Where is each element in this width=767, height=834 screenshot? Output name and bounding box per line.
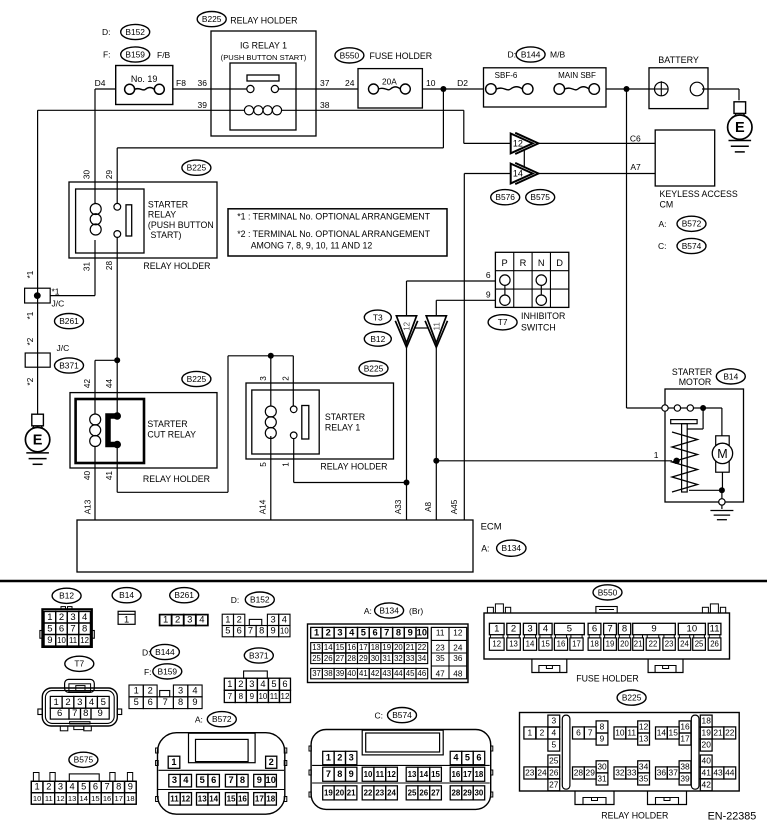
svg-text:EN-22385: EN-22385 <box>708 811 757 823</box>
svg-text:23: 23 <box>525 767 535 777</box>
svg-text:B159: B159 <box>158 666 178 676</box>
svg-text:B225: B225 <box>364 363 384 373</box>
svg-text:C:: C: <box>375 711 384 721</box>
svg-text:11: 11 <box>69 636 77 645</box>
svg-text:38: 38 <box>680 761 690 771</box>
svg-text:RELAY 1: RELAY 1 <box>325 422 360 432</box>
svg-text:37: 37 <box>312 669 321 678</box>
svg-text:3: 3 <box>259 376 268 381</box>
svg-text:40: 40 <box>83 471 92 481</box>
svg-text:RELAY HOLDER: RELAY HOLDER <box>230 15 297 25</box>
svg-text:*2: *2 <box>26 337 35 345</box>
svg-text:A14: A14 <box>259 499 268 514</box>
svg-text:8: 8 <box>239 692 244 701</box>
svg-text:11: 11 <box>710 624 720 635</box>
svg-text:26: 26 <box>419 788 428 797</box>
svg-text:17: 17 <box>572 640 581 649</box>
svg-text:15: 15 <box>227 794 236 803</box>
svg-text:39: 39 <box>680 773 690 783</box>
svg-text:B225: B225 <box>622 693 642 703</box>
svg-text:AMONG 7, 8, 9, 10, 11 AND 12: AMONG 7, 8, 9, 10, 11 AND 12 <box>251 241 373 251</box>
svg-text:B576: B576 <box>495 192 515 202</box>
svg-text:27: 27 <box>336 654 345 663</box>
svg-text:7: 7 <box>607 624 612 635</box>
svg-text:16: 16 <box>347 643 356 652</box>
svg-text:10: 10 <box>615 727 625 737</box>
svg-text:1: 1 <box>494 624 499 635</box>
svg-text:16: 16 <box>557 640 566 649</box>
svg-text:6: 6 <box>592 624 597 635</box>
svg-text:4: 4 <box>183 775 189 785</box>
svg-text:8: 8 <box>83 708 88 719</box>
svg-text:29: 29 <box>359 654 368 663</box>
svg-text:24: 24 <box>387 788 396 797</box>
svg-text:B575: B575 <box>530 192 550 202</box>
svg-text:3: 3 <box>187 615 192 626</box>
svg-text:4: 4 <box>543 624 548 635</box>
svg-text:37: 37 <box>320 78 330 88</box>
svg-text:START): START) <box>151 230 182 240</box>
svg-text:33: 33 <box>627 767 637 777</box>
svg-text:36: 36 <box>453 654 463 663</box>
svg-text:5: 5 <box>465 753 470 763</box>
svg-text:8: 8 <box>600 721 605 731</box>
svg-text:8: 8 <box>116 782 121 792</box>
svg-text:2: 2 <box>148 685 153 695</box>
svg-text:1: 1 <box>54 697 59 708</box>
svg-text:D:: D: <box>231 595 240 605</box>
svg-text:15: 15 <box>336 643 345 652</box>
svg-text:13: 13 <box>509 640 518 649</box>
svg-text:IG RELAY 1: IG RELAY 1 <box>240 41 287 51</box>
svg-text:28: 28 <box>452 788 461 797</box>
svg-text:*1 : TERMINAL No. OPTIONAL ARR: *1 : TERMINAL No. OPTIONAL ARRANGEMENT <box>237 212 430 222</box>
svg-text:26: 26 <box>549 767 559 777</box>
svg-text:4: 4 <box>551 727 556 737</box>
svg-text:4: 4 <box>260 679 265 689</box>
svg-text:16: 16 <box>452 770 461 779</box>
svg-text:B134: B134 <box>379 605 399 615</box>
svg-text:3: 3 <box>178 685 183 695</box>
svg-text:2: 2 <box>282 376 291 381</box>
svg-text:D:: D: <box>142 648 151 658</box>
svg-text:CM: CM <box>660 200 674 210</box>
svg-text:10: 10 <box>364 770 373 779</box>
svg-text:3: 3 <box>337 627 342 637</box>
svg-text:A:: A: <box>195 715 203 725</box>
svg-text:FUSE HOLDER: FUSE HOLDER <box>370 51 433 61</box>
svg-text:10: 10 <box>266 775 276 785</box>
svg-text:9: 9 <box>128 782 133 792</box>
svg-text:9: 9 <box>270 626 275 636</box>
svg-text:20: 20 <box>394 643 403 652</box>
svg-text:3: 3 <box>551 716 556 726</box>
svg-text:2: 2 <box>511 624 516 635</box>
svg-text:RELAY: RELAY <box>148 210 176 220</box>
svg-text:B261: B261 <box>174 590 194 600</box>
svg-text:2: 2 <box>46 782 51 792</box>
svg-text:2: 2 <box>59 612 64 623</box>
svg-text:40: 40 <box>702 756 712 766</box>
svg-text:M: M <box>717 447 727 461</box>
svg-text:1: 1 <box>282 462 291 467</box>
svg-text:M/B: M/B <box>550 50 565 60</box>
svg-text:17: 17 <box>255 794 264 803</box>
svg-text:4: 4 <box>89 697 94 708</box>
svg-text:12: 12 <box>56 794 64 803</box>
svg-text:F8: F8 <box>176 78 186 88</box>
svg-text:R: R <box>520 258 527 268</box>
svg-text:43: 43 <box>713 767 723 777</box>
svg-text:MOTOR: MOTOR <box>679 377 712 387</box>
svg-text:D: D <box>556 258 563 268</box>
svg-text:21: 21 <box>713 727 723 737</box>
svg-text:19: 19 <box>606 640 615 649</box>
svg-text:RELAY HOLDER: RELAY HOLDER <box>143 261 210 271</box>
svg-text:34: 34 <box>639 761 649 771</box>
svg-text:25: 25 <box>408 788 417 797</box>
svg-text:P: P <box>501 258 507 268</box>
svg-text:18: 18 <box>590 640 599 649</box>
svg-text:28: 28 <box>347 654 356 663</box>
svg-text:2: 2 <box>269 757 274 767</box>
svg-text:A:: A: <box>658 219 666 229</box>
svg-text:9: 9 <box>47 635 52 646</box>
svg-text:15: 15 <box>541 640 550 649</box>
svg-text:12: 12 <box>387 770 396 779</box>
svg-text:2: 2 <box>65 697 70 708</box>
svg-text:14: 14 <box>657 727 667 737</box>
svg-text:B225: B225 <box>202 14 222 24</box>
svg-text:12: 12 <box>281 692 290 701</box>
svg-text:8: 8 <box>259 626 264 636</box>
svg-text:C:: C: <box>658 241 667 251</box>
svg-text:8: 8 <box>240 775 245 785</box>
svg-text:7: 7 <box>228 692 233 701</box>
svg-text:12: 12 <box>80 636 89 645</box>
svg-text:42: 42 <box>83 379 92 389</box>
svg-text:1: 1 <box>163 615 168 626</box>
svg-text:6: 6 <box>282 679 287 689</box>
svg-text:21: 21 <box>347 788 356 797</box>
svg-text:MAIN SBF: MAIN SBF <box>558 71 596 80</box>
svg-text:1: 1 <box>171 757 176 767</box>
svg-text:16: 16 <box>680 721 690 731</box>
svg-text:(Br): (Br) <box>409 606 423 616</box>
svg-text:30: 30 <box>597 761 607 771</box>
svg-text:2: 2 <box>540 727 545 737</box>
svg-text:14: 14 <box>324 643 333 652</box>
svg-text:B225: B225 <box>187 374 207 384</box>
svg-text:9: 9 <box>250 692 255 701</box>
svg-text:12: 12 <box>181 794 190 803</box>
svg-text:RELAY HOLDER: RELAY HOLDER <box>601 811 668 821</box>
svg-text:10: 10 <box>33 794 41 803</box>
svg-text:1: 1 <box>124 614 129 624</box>
svg-text:32: 32 <box>394 654 403 663</box>
svg-text:24: 24 <box>453 643 463 652</box>
svg-text:12: 12 <box>639 721 649 731</box>
svg-text:19: 19 <box>702 727 712 737</box>
svg-text:23: 23 <box>375 788 384 797</box>
svg-text:7: 7 <box>228 775 233 785</box>
svg-text:6: 6 <box>486 270 491 280</box>
svg-text:6: 6 <box>57 708 62 719</box>
svg-text:5: 5 <box>225 626 230 636</box>
svg-text:17: 17 <box>463 770 472 779</box>
svg-text:5: 5 <box>134 697 139 707</box>
svg-text:21: 21 <box>406 643 415 652</box>
svg-text:B371: B371 <box>249 650 269 660</box>
svg-text:9: 9 <box>192 697 197 707</box>
svg-text:6: 6 <box>237 626 242 636</box>
svg-text:1: 1 <box>134 685 139 695</box>
svg-text:37: 37 <box>669 767 679 777</box>
svg-text:18: 18 <box>371 643 380 652</box>
svg-text:RELAY HOLDER: RELAY HOLDER <box>320 462 387 472</box>
svg-text:13: 13 <box>408 770 417 779</box>
svg-text:11: 11 <box>45 794 53 803</box>
svg-text:9: 9 <box>651 624 656 635</box>
svg-text:E: E <box>33 433 43 449</box>
svg-text:18: 18 <box>475 770 484 779</box>
svg-text:A13: A13 <box>84 499 93 514</box>
svg-text:B14: B14 <box>119 590 134 600</box>
svg-text:14: 14 <box>419 770 428 779</box>
svg-text:22: 22 <box>364 788 373 797</box>
svg-text:3: 3 <box>70 612 75 623</box>
svg-text:20: 20 <box>620 640 629 649</box>
svg-text:9: 9 <box>349 769 354 779</box>
svg-text:6: 6 <box>576 727 581 737</box>
svg-text:5: 5 <box>271 679 276 689</box>
svg-text:11: 11 <box>376 770 385 779</box>
svg-text:10: 10 <box>426 78 436 88</box>
svg-text:16: 16 <box>103 794 111 803</box>
svg-text:B572: B572 <box>682 219 702 229</box>
svg-text:6: 6 <box>59 623 64 634</box>
svg-text:7: 7 <box>588 727 593 737</box>
svg-text:3: 3 <box>77 697 82 708</box>
svg-text:27: 27 <box>549 779 559 789</box>
svg-text:B261: B261 <box>59 316 79 326</box>
svg-text:13: 13 <box>68 794 76 803</box>
svg-text:25: 25 <box>695 640 704 649</box>
svg-text:16: 16 <box>238 794 247 803</box>
svg-text:14: 14 <box>526 640 535 649</box>
svg-text:B14: B14 <box>723 371 738 381</box>
svg-text:8: 8 <box>178 697 183 707</box>
svg-text:6: 6 <box>476 753 481 763</box>
svg-text:7: 7 <box>104 782 109 792</box>
svg-text:9: 9 <box>408 627 413 637</box>
svg-text:N: N <box>538 258 545 268</box>
svg-text:*2 : TERMINAL No. OPTIONAL ARR: *2 : TERMINAL No. OPTIONAL ARRANGEMENT <box>237 229 430 239</box>
svg-text:(PUSH BUTTON: (PUSH BUTTON <box>148 220 214 230</box>
svg-text:6: 6 <box>372 627 377 637</box>
svg-text:15: 15 <box>431 770 440 779</box>
svg-text:8: 8 <box>396 627 401 637</box>
svg-text:30: 30 <box>83 170 92 180</box>
svg-text:*2: *2 <box>26 377 35 385</box>
svg-text:4: 4 <box>70 782 75 792</box>
svg-text:A33: A33 <box>394 499 403 514</box>
svg-text:3: 3 <box>527 624 532 635</box>
svg-text:E: E <box>735 120 745 136</box>
svg-text:25: 25 <box>549 756 559 766</box>
svg-text:26: 26 <box>710 640 719 649</box>
svg-text:1: 1 <box>47 612 52 623</box>
svg-text:40: 40 <box>347 669 356 678</box>
svg-text:D2: D2 <box>457 78 468 88</box>
svg-text:1: 1 <box>227 679 232 689</box>
svg-text:B550: B550 <box>598 587 618 597</box>
svg-text:T7: T7 <box>498 317 508 327</box>
svg-text:30: 30 <box>371 654 380 663</box>
svg-text:2: 2 <box>175 615 180 626</box>
svg-text:B225: B225 <box>187 163 207 173</box>
svg-text:5: 5 <box>47 623 52 634</box>
svg-text:3: 3 <box>270 614 275 624</box>
svg-text:F:: F: <box>144 667 152 677</box>
svg-text:2: 2 <box>238 679 243 689</box>
svg-text:STARTER: STARTER <box>325 412 365 422</box>
svg-text:36: 36 <box>657 767 667 777</box>
svg-text:12: 12 <box>453 629 463 638</box>
svg-text:10: 10 <box>280 627 289 636</box>
svg-text:36: 36 <box>198 78 208 88</box>
svg-text:*1: *1 <box>26 311 35 319</box>
svg-text:4: 4 <box>192 685 197 695</box>
svg-text:STARTER: STARTER <box>672 367 712 377</box>
svg-text:STARTER: STARTER <box>148 200 188 210</box>
svg-text:8: 8 <box>622 624 627 635</box>
svg-text:1: 1 <box>225 614 230 624</box>
svg-text:10: 10 <box>57 636 66 645</box>
svg-text:28: 28 <box>574 767 584 777</box>
svg-text:D4: D4 <box>95 78 106 88</box>
svg-text:19: 19 <box>324 788 333 797</box>
svg-text:8: 8 <box>82 623 87 634</box>
svg-text:20A: 20A <box>382 76 397 86</box>
svg-text:B144: B144 <box>521 49 541 59</box>
svg-text:B574: B574 <box>392 710 412 720</box>
svg-text:5: 5 <box>551 740 556 750</box>
svg-text:6: 6 <box>211 775 216 785</box>
svg-text:1: 1 <box>314 627 319 637</box>
svg-text:12: 12 <box>403 321 412 330</box>
svg-text:7: 7 <box>326 769 331 779</box>
svg-text:26: 26 <box>324 654 333 663</box>
svg-text:22: 22 <box>725 727 735 737</box>
svg-text:23: 23 <box>436 643 446 652</box>
svg-text:33: 33 <box>406 654 415 663</box>
svg-text:B371: B371 <box>59 360 79 370</box>
svg-text:14: 14 <box>513 169 523 179</box>
svg-text:41: 41 <box>105 471 114 481</box>
svg-text:28: 28 <box>105 261 114 271</box>
svg-text:18: 18 <box>266 794 275 803</box>
svg-text:1: 1 <box>35 782 40 792</box>
svg-text:3: 3 <box>172 775 177 785</box>
svg-text:13: 13 <box>639 734 649 744</box>
svg-text:19: 19 <box>382 643 391 652</box>
svg-text:BATTERY: BATTERY <box>658 55 699 65</box>
svg-text:15: 15 <box>669 727 679 737</box>
svg-text:D:: D: <box>102 27 111 37</box>
svg-text:A8: A8 <box>424 502 433 512</box>
svg-text:22: 22 <box>649 640 658 649</box>
svg-text:46: 46 <box>418 669 427 678</box>
svg-text:29: 29 <box>586 767 596 777</box>
svg-text:39: 39 <box>198 100 208 110</box>
svg-text:4: 4 <box>453 753 459 763</box>
svg-text:2: 2 <box>337 753 342 763</box>
svg-text:5: 5 <box>81 782 86 792</box>
svg-text:F/B: F/B <box>157 50 171 60</box>
svg-text:21: 21 <box>634 640 643 649</box>
svg-text:D:: D: <box>508 50 517 60</box>
svg-text:No. 19: No. 19 <box>131 74 158 84</box>
svg-text:13: 13 <box>312 643 321 652</box>
svg-text:SBF-6: SBF-6 <box>495 71 518 80</box>
svg-text:B144: B144 <box>155 647 175 657</box>
svg-text:24: 24 <box>537 767 547 777</box>
svg-text:38: 38 <box>320 100 330 110</box>
svg-text:39: 39 <box>336 669 345 678</box>
svg-text:9: 9 <box>486 290 491 300</box>
svg-text:22: 22 <box>418 643 427 652</box>
svg-text:B134: B134 <box>502 543 522 553</box>
svg-text:17: 17 <box>114 794 122 803</box>
svg-text:F:: F: <box>103 50 111 60</box>
svg-text:7: 7 <box>248 626 253 636</box>
svg-text:12: 12 <box>492 640 501 649</box>
svg-text:2: 2 <box>326 627 331 637</box>
svg-text:B12: B12 <box>59 591 74 601</box>
svg-text:3: 3 <box>58 782 63 792</box>
svg-text:42: 42 <box>702 779 712 789</box>
svg-text:B152: B152 <box>250 595 270 605</box>
svg-text:7: 7 <box>163 697 168 707</box>
svg-text:B575: B575 <box>74 755 94 765</box>
svg-text:5: 5 <box>259 462 268 467</box>
svg-text:18: 18 <box>702 716 712 726</box>
svg-text:17: 17 <box>359 643 368 652</box>
svg-text:29: 29 <box>105 170 114 180</box>
svg-text:5: 5 <box>361 627 366 637</box>
svg-text:35: 35 <box>639 773 649 783</box>
svg-text:B159: B159 <box>125 49 145 59</box>
svg-text:41: 41 <box>359 669 368 678</box>
svg-text:ECM: ECM <box>481 522 502 533</box>
svg-text:20: 20 <box>702 740 712 750</box>
svg-text:47: 47 <box>436 669 446 678</box>
svg-text:RELAY HOLDER: RELAY HOLDER <box>143 474 210 484</box>
svg-text:9: 9 <box>600 734 605 744</box>
svg-text:6: 6 <box>148 697 153 707</box>
svg-text:48: 48 <box>453 669 463 678</box>
svg-text:B574: B574 <box>682 241 702 251</box>
svg-text:B12: B12 <box>370 334 385 344</box>
svg-text:SWITCH: SWITCH <box>521 322 556 332</box>
svg-text:7: 7 <box>384 627 389 637</box>
svg-text:24: 24 <box>680 640 689 649</box>
svg-text:10: 10 <box>258 692 267 701</box>
svg-text:J/C: J/C <box>52 299 65 309</box>
svg-text:11: 11 <box>433 322 442 331</box>
svg-text:7: 7 <box>72 708 77 719</box>
